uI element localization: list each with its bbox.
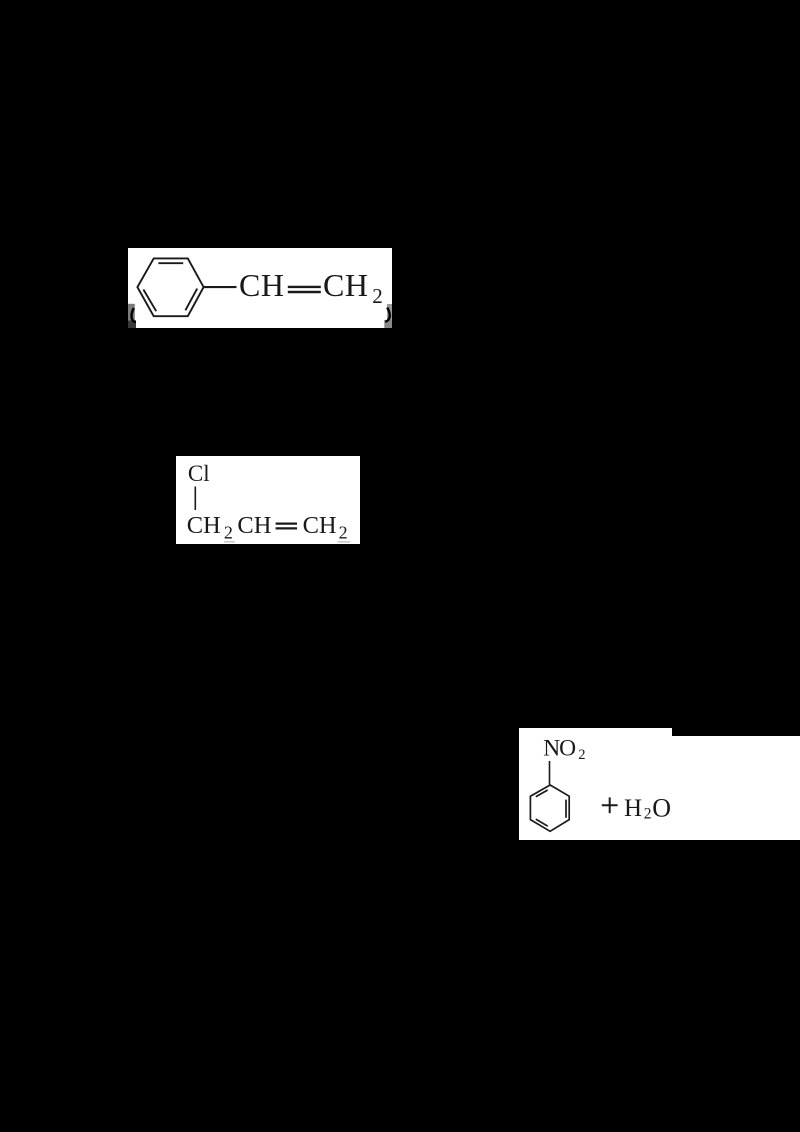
svg-text:CH: CH [187, 512, 221, 539]
svg-text:H: H [624, 795, 642, 822]
right parenthesis glyph [385, 308, 390, 322]
svg-text:2: 2 [224, 523, 233, 543]
left parenthesis glyph [131, 308, 135, 322]
single bond NO2 to ring [549, 761, 551, 785]
faint underline artifact 1 [224, 541, 235, 543]
benzene ring 1 inner double bond (lower-right edge) [185, 289, 197, 311]
benzene ring 2 outline [530, 785, 569, 831]
benzene ring 1 inner double bond (top edge) [158, 262, 183, 264]
svg-text:2: 2 [578, 747, 585, 763]
benzene ring 2 inner double bond (lower-left edge) [536, 819, 548, 826]
double bond C=C [276, 522, 297, 524]
benzene ring 2 inner double bond (right edge) [565, 800, 567, 818]
benzene ring 1 outline [137, 258, 203, 316]
svg-text:CH: CH [303, 512, 337, 539]
svg-text:2: 2 [372, 284, 383, 308]
svg-text:2: 2 [644, 805, 652, 822]
double bond C=C [288, 286, 321, 288]
plus sign [602, 804, 618, 806]
svg-text:2: 2 [339, 523, 348, 543]
left parenthesis highlight patch [128, 304, 135, 321]
faint underline artifact 2 [338, 541, 351, 543]
formula image 3 background right part (+H2O) [672, 736, 800, 840]
formula image 2 background (3-chloropropene) [176, 456, 360, 544]
svg-text:NO: NO [543, 735, 575, 761]
single bond ring to CH [204, 286, 237, 288]
benzene ring 2 inner double bond (upper-left edge) [536, 790, 548, 797]
svg-text:CH: CH [323, 267, 368, 303]
formula image 3 background left part (nitrobenzene) [519, 728, 672, 840]
single bond Cl to CH2 [194, 487, 196, 511]
svg-text:CH: CH [237, 512, 271, 539]
formula image 1 background (styrene) [128, 248, 392, 328]
svg-text:CH: CH [239, 267, 284, 303]
svg-text:O: O [652, 793, 671, 822]
benzene ring 1 inner double bond (lower-left edge) [143, 290, 156, 312]
right parenthesis highlight patch [387, 304, 392, 320]
svg-text:Cl: Cl [188, 461, 210, 486]
